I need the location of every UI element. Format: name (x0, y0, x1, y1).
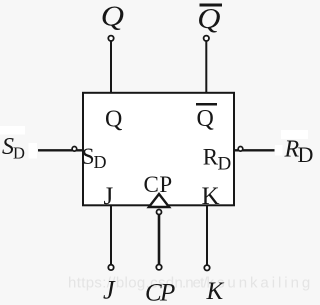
svg-text:R: R (203, 145, 219, 170)
white patch above RD (281, 130, 308, 139)
svg-text:Q: Q (197, 106, 214, 132)
svg-text:K: K (206, 278, 225, 305)
bubble RD input (238, 147, 243, 152)
svg-text:J: J (103, 276, 116, 305)
bubble CP (negative edge) (157, 210, 162, 215)
wire J bottom (110, 205, 112, 265)
wire K bottom (206, 205, 208, 265)
trigger triangle CP (149, 194, 169, 207)
terminal Qbar (204, 36, 209, 41)
white patch above SD (0, 126, 25, 135)
svg-text:Q: Q (105, 106, 122, 132)
wire RD right (234, 149, 275, 151)
flip-flop body U1 (83, 93, 234, 206)
svg-text:CP: CP (145, 280, 175, 305)
overline Qbar inside (196, 103, 217, 106)
terminal Q (108, 36, 113, 41)
wire SD left (38, 149, 83, 151)
svg-text:CP: CP (144, 172, 173, 197)
terminal K (204, 265, 209, 270)
bubble SD input (72, 147, 77, 152)
svg-text:J: J (104, 183, 114, 210)
white patch left of RD (275, 145, 283, 156)
svg-text:D: D (13, 144, 25, 163)
overline Qbar top (200, 4, 223, 7)
terminal CP (156, 265, 161, 270)
wire Q top (110, 41, 112, 93)
white patch right of SD (29, 143, 38, 159)
wire Qbar top (205, 41, 207, 93)
svg-text:D: D (298, 142, 314, 167)
svg-text:K: K (202, 183, 220, 210)
svg-text:Q: Q (101, 0, 124, 32)
terminal J (108, 265, 113, 270)
svg-text:D: D (218, 154, 232, 175)
svg-text:D: D (94, 152, 107, 172)
wire CP bottom (158, 215, 161, 264)
svg-text:Q: Q (197, 3, 220, 35)
